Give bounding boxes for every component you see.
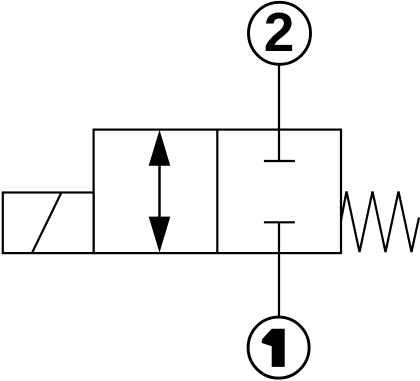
solenoid coil box	[3, 193, 94, 254]
blocked port stub top	[278, 130, 280, 161]
flow arrow head up	[149, 130, 171, 166]
return spring	[341, 192, 419, 253]
port label 1	[262, 329, 285, 367]
valve body	[94, 130, 341, 254]
solenoid coil diagonal	[32, 193, 62, 254]
port circle 1	[248, 317, 309, 378]
port circle 2	[249, 2, 311, 64]
flow arrow head down	[149, 217, 171, 253]
blocked port bar top	[264, 160, 295, 162]
blocked port bar bottom	[264, 221, 295, 223]
position divider	[216, 130, 218, 254]
wire port2-to-valve	[278, 65, 280, 129]
flow arrow shaft	[158, 163, 161, 219]
svg-text:2: 2	[264, 1, 295, 63]
wire valve-to-port1	[278, 222, 280, 316]
